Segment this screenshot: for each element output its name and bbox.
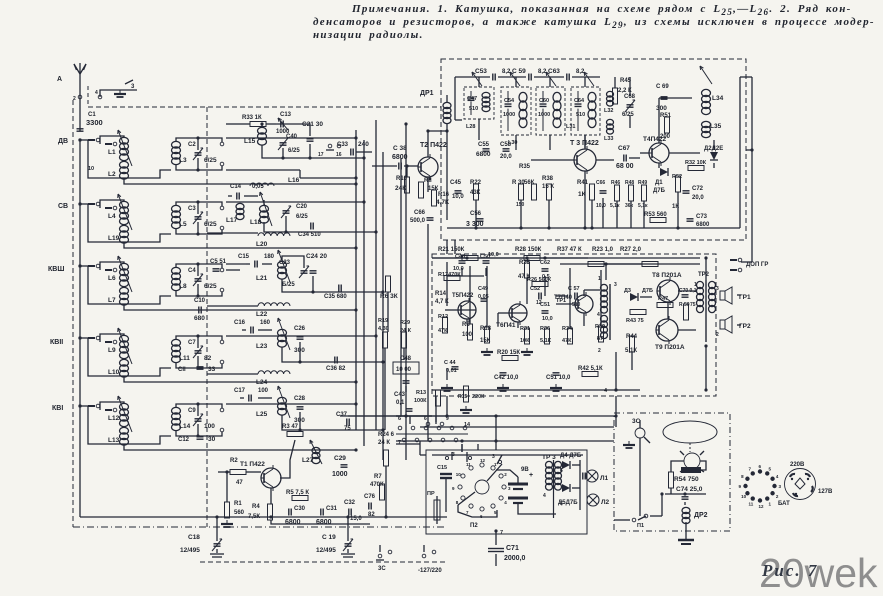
svg-text:С33: С33 xyxy=(337,142,349,148)
wire: AF bias rail xyxy=(432,256,708,280)
inductor L3 xyxy=(172,141,181,164)
wire: sec bot xyxy=(176,158,200,172)
resistor R37 label xyxy=(557,247,582,253)
svg-text:36к: 36к xyxy=(625,203,634,209)
wire: out to bus xyxy=(198,264,222,268)
svg-text:R13: R13 xyxy=(416,390,426,396)
wire: row1 out xyxy=(356,151,372,153)
svg-text:С72: С72 xyxy=(692,186,704,192)
resistor R14 xyxy=(435,291,449,305)
inductor L10 xyxy=(120,359,129,377)
wire: gang bus 1 xyxy=(355,130,357,430)
svg-text:СВ: СВ xyxy=(58,203,68,210)
svg-text:С12: С12 xyxy=(178,437,190,443)
resistor R6 xyxy=(380,276,398,300)
svg-text:47: 47 xyxy=(236,480,243,486)
svg-text:L7: L7 xyxy=(108,297,116,304)
svg-text:R28 150К: R28 150К xyxy=(515,247,542,253)
connector pair КВI xyxy=(88,404,117,412)
wire: coil bottom L13 xyxy=(124,445,358,452)
capacitor C53 xyxy=(475,68,511,81)
wire: to П1 xyxy=(614,494,662,520)
wire: top dashed line antenna to IF block xyxy=(88,106,441,108)
svg-text:С40: С40 xyxy=(286,134,298,140)
resistor R27 label xyxy=(620,247,642,253)
inductor L12 xyxy=(118,396,132,432)
svg-text:С24 20: С24 20 xyxy=(306,253,327,260)
svg-text:П2: П2 xyxy=(470,523,478,529)
svg-text:L34: L34 xyxy=(712,95,724,102)
wire: power section wires xyxy=(665,461,706,530)
wire: AF mid rail xyxy=(462,268,486,276)
svg-text:L1: L1 xyxy=(108,149,116,156)
connector -127/220 xyxy=(418,550,442,574)
resistor R53 xyxy=(644,212,667,223)
svg-text:56К: 56К xyxy=(524,180,535,186)
svg-text:R35: R35 xyxy=(519,164,531,170)
capacitor C17 xyxy=(234,388,269,402)
svg-text:L2: L2 xyxy=(108,171,116,178)
trimmer capacitor С9 xyxy=(193,414,203,426)
value 6/25 xyxy=(204,221,217,228)
svg-text:ДВ: ДВ xyxy=(58,138,68,145)
wire: right side drop xyxy=(741,150,752,262)
svg-text:R3 47: R3 47 xyxy=(282,424,299,430)
transistor T8 П201А xyxy=(652,272,682,305)
label L1 xyxy=(108,149,116,156)
wire: coil top L6 xyxy=(100,262,124,270)
svg-text:ДР1: ДР1 xyxy=(420,90,434,97)
svg-text:R17470К: R17470К xyxy=(438,272,461,278)
capacitor C15 xyxy=(238,254,275,268)
label С3 xyxy=(188,206,196,212)
resistor R23 label xyxy=(592,247,614,253)
svg-text:Д5Д7Б: Д5Д7Б xyxy=(558,500,578,506)
label coil L8 xyxy=(179,283,187,290)
note line 1 xyxy=(352,3,852,17)
wire: band feed СВ xyxy=(78,202,88,205)
svg-text:Д7Б: Д7Б xyxy=(653,188,666,194)
svg-text:L5: L5 xyxy=(179,221,187,228)
diode Д3 Д7Б xyxy=(624,288,653,301)
svg-text:L10: L10 xyxy=(108,369,120,376)
wire: coil top L12 xyxy=(100,402,124,410)
svg-text:С7: С7 xyxy=(188,340,196,346)
svg-text:R48: R48 xyxy=(625,180,634,186)
node ДВ label xyxy=(58,138,68,145)
svg-text:680: 680 xyxy=(194,315,205,322)
trimmer capacitor С3 xyxy=(193,212,203,224)
terminal КВIII a xyxy=(220,268,224,272)
connector pair КВIII xyxy=(88,264,117,272)
svg-text:R5 7,5 К: R5 7,5 К xyxy=(286,490,309,496)
svg-text:R21 150К: R21 150К xyxy=(438,247,465,253)
svg-text:С28: С28 xyxy=(294,396,306,402)
wire: sec bot xyxy=(176,222,200,236)
wire: link ДВ xyxy=(88,140,171,178)
label coil L11 xyxy=(179,355,190,362)
wire: T3 base feed xyxy=(531,159,574,161)
resistor R31 xyxy=(520,326,530,344)
svg-text:L9: L9 xyxy=(108,347,116,354)
svg-text:ТР2: ТР2 xyxy=(698,272,710,278)
svg-text:R33 1К: R33 1К xyxy=(242,115,262,121)
inductor L23 xyxy=(256,318,290,350)
label С9 xyxy=(188,408,196,414)
ground (T1 bottom) xyxy=(221,520,233,527)
inductor L16 xyxy=(250,177,300,186)
wire: out to bus xyxy=(198,336,222,340)
wire: row3 xyxy=(246,256,334,294)
svg-text:L19: L19 xyxy=(108,235,120,242)
wire: to T2 base xyxy=(372,165,418,167)
capacitor C5 xyxy=(210,259,227,271)
resistor R50 xyxy=(679,302,696,320)
svg-text:4: 4 xyxy=(543,493,546,499)
wire: sec bot xyxy=(176,356,200,370)
wire: power box frame xyxy=(426,450,587,534)
svg-text:5,1К: 5,1К xyxy=(625,348,637,354)
terminal pair row1 xyxy=(318,144,342,158)
svg-text:4: 4 xyxy=(95,90,98,96)
capacitor C14 xyxy=(230,184,264,200)
svg-text:П1: П1 xyxy=(637,523,644,529)
inductor L2 xyxy=(120,161,129,179)
svg-text:КВШ: КВШ xyxy=(48,266,64,273)
svg-text:20,0: 20,0 xyxy=(692,195,704,201)
svg-text:43К: 43К xyxy=(470,190,481,196)
svg-text:R54 750: R54 750 xyxy=(674,476,699,483)
svg-text:R19: R19 xyxy=(378,318,388,324)
wire: coil top L9 xyxy=(100,334,124,342)
wire: sec top xyxy=(176,200,200,214)
svg-text:С48: С48 xyxy=(400,356,412,362)
svg-text:L23: L23 xyxy=(256,343,268,350)
svg-text:8,2: 8,2 xyxy=(576,69,585,75)
wire: IF can feeds xyxy=(479,77,585,87)
svg-text:С66: С66 xyxy=(414,210,426,216)
svg-text:R 50: R 50 xyxy=(679,302,690,308)
trimmer capacitor С7 xyxy=(193,346,203,358)
svg-text:L14: L14 xyxy=(179,423,191,430)
svg-text:6/25: 6/25 xyxy=(622,112,634,118)
wire: bottom stubs xyxy=(380,545,424,552)
svg-text:R26 560К: R26 560К xyxy=(527,277,552,283)
wire: out bottom xyxy=(198,360,224,368)
resistor R10 xyxy=(395,176,410,193)
wire: left rail extension xyxy=(80,516,218,518)
terminal КВI a xyxy=(220,408,224,412)
resistor row 2 xyxy=(462,256,658,267)
svg-text:9: 9 xyxy=(739,484,742,489)
svg-text:С53: С53 xyxy=(475,68,487,75)
wire: AF bottom rail xyxy=(432,352,640,390)
wire: out to bus xyxy=(198,404,222,408)
svg-text:6/25: 6/25 xyxy=(204,157,217,164)
wire: AF T5 base xyxy=(445,309,458,311)
svg-text:R31: R31 xyxy=(520,326,530,332)
svg-text:С36 82: С36 82 xyxy=(326,366,346,372)
svg-text:3300: 3300 xyxy=(86,118,103,127)
svg-text:С48: С48 xyxy=(455,254,465,260)
svg-text:510: 510 xyxy=(572,302,581,308)
transistor T1 П422 xyxy=(240,461,281,491)
svg-text:ГР2: ГР2 xyxy=(739,323,751,330)
resistor R26 xyxy=(527,277,552,287)
figure caption Рис. 7 xyxy=(762,561,818,581)
wire: coil bottom L7 xyxy=(124,305,358,312)
svg-text:БАТ: БАТ xyxy=(778,501,790,507)
resistor R32 xyxy=(685,160,707,171)
wire: bottom rail xyxy=(218,516,447,518)
watermark 20wek xyxy=(759,550,878,596)
svg-text:С51 10,0: С51 10,0 xyxy=(546,375,571,381)
wire: AF block dashed frame xyxy=(432,254,716,396)
resistor R49 xyxy=(638,180,648,209)
wire: row crossings xyxy=(207,233,258,374)
inductor L19 xyxy=(120,225,129,243)
svg-text:С37: С37 xyxy=(336,412,348,418)
transformer can C47/L28 xyxy=(464,87,494,140)
svg-text:ДР2: ДР2 xyxy=(694,512,708,519)
wire: rail y427 xyxy=(420,426,614,428)
svg-text:L11: L11 xyxy=(179,355,190,362)
wire: IF bottom verticals xyxy=(476,77,740,228)
svg-text:Т4П422: Т4П422 xyxy=(643,136,666,143)
capacitor C31 xyxy=(316,506,338,526)
capacitor C21 xyxy=(302,121,323,141)
node КВII label xyxy=(50,339,63,346)
svg-text:150: 150 xyxy=(516,202,525,208)
inductor L7 xyxy=(120,287,129,305)
wire: T4 collector up xyxy=(659,98,692,143)
svg-text:С34 510: С34 510 xyxy=(298,232,321,238)
wire: osc row1 to bus xyxy=(330,157,364,159)
connector 3С jack xyxy=(632,418,650,443)
capacitor C55 xyxy=(476,142,491,158)
lamp Л1 xyxy=(586,470,609,482)
wire: bottom dash-dot chassis line xyxy=(73,526,447,528)
label 220В xyxy=(790,462,805,468)
wire: junction nodes 6 9 xyxy=(424,416,449,426)
svg-text:75: 75 xyxy=(344,426,351,432)
svg-text:6/25: 6/25 xyxy=(204,283,217,290)
resistor R22 xyxy=(470,180,482,200)
svg-text:100: 100 xyxy=(258,388,269,394)
svg-text:С64: С64 xyxy=(574,98,585,104)
svg-text:220В: 220В xyxy=(790,462,805,468)
capacitor C35 xyxy=(324,285,347,301)
svg-text:R12: R12 xyxy=(438,314,448,320)
svg-text:-127/220: -127/220 xyxy=(418,568,442,574)
resistor R47 xyxy=(657,296,673,308)
wire: lower dashed gang-link line xyxy=(200,561,447,563)
terminal СВ a xyxy=(220,206,224,210)
terminal КВII a xyxy=(220,340,224,344)
wire: IF block dashed frame xyxy=(441,59,746,240)
svg-text:Д3: Д3 xyxy=(624,288,631,294)
transistor T7 П40 xyxy=(554,292,593,316)
svg-text:R2: R2 xyxy=(230,458,238,464)
svg-text:С10: С10 xyxy=(194,298,206,304)
variable capacitor C18 xyxy=(180,534,222,554)
wire: T1 area xyxy=(218,440,370,524)
wire: rectifier wiring xyxy=(572,460,585,510)
svg-text:10: 10 xyxy=(741,494,747,499)
svg-text:24 К: 24 К xyxy=(400,328,412,334)
svg-text:10: 10 xyxy=(456,472,462,477)
inductor L22 xyxy=(256,303,290,318)
inductor L6 xyxy=(118,256,132,292)
capacitor C70 xyxy=(679,288,697,297)
svg-text:7: 7 xyxy=(749,467,752,472)
svg-text:2: 2 xyxy=(73,96,76,102)
inductor L1 xyxy=(118,130,132,166)
svg-text:47: 47 xyxy=(597,336,603,342)
wire: link СВ xyxy=(88,204,171,242)
svg-text:127В: 127В xyxy=(818,489,833,495)
svg-text:L16: L16 xyxy=(288,177,300,184)
label L13 xyxy=(108,437,120,444)
svg-text:6: 6 xyxy=(759,464,762,469)
svg-text:С74 25,0: С74 25,0 xyxy=(676,486,703,493)
svg-text:R8: R8 xyxy=(462,322,470,328)
diode Д1 Д7Б xyxy=(653,168,668,194)
wire: bus junction dots xyxy=(78,138,81,407)
svg-text:R23 1,0: R23 1,0 xyxy=(592,247,614,253)
svg-text:10: 10 xyxy=(88,166,94,172)
wire: band КВII to bus xyxy=(226,335,376,337)
wire: band КВIII to bus xyxy=(226,264,246,270)
inductor L27 xyxy=(302,440,322,464)
svg-text:510: 510 xyxy=(576,112,585,118)
inductor L8 xyxy=(172,267,181,290)
transistor T5 П422 xyxy=(452,293,476,322)
wire: C18 stem xyxy=(215,515,218,541)
wire: gang bus extra xyxy=(400,158,402,416)
resistor R11 xyxy=(419,178,439,198)
svg-text:Д4 Д7Б: Д4 Д7Б xyxy=(560,453,582,459)
wire: sec top xyxy=(176,334,200,348)
wire: box feeds xyxy=(420,441,426,455)
svg-text:С2: С2 xyxy=(188,142,196,148)
svg-text:100К: 100К xyxy=(414,398,427,404)
svg-text:10,0: 10,0 xyxy=(596,203,606,209)
terminal 3 xyxy=(125,80,135,90)
wire: band feed КВIII xyxy=(78,264,88,267)
connector Доп ГР xyxy=(730,258,768,272)
resistor R54 body xyxy=(669,472,674,488)
wire: coil bottom L19 xyxy=(124,243,358,250)
capacitor C29 xyxy=(332,455,348,478)
svg-text:2: 2 xyxy=(598,348,601,354)
svg-text:47К: 47К xyxy=(562,338,572,344)
svg-text:6/25: 6/25 xyxy=(204,221,217,228)
wire: link КВI xyxy=(88,406,171,444)
label 10 (L2 tap) xyxy=(88,166,94,172)
svg-text:L22: L22 xyxy=(256,311,268,318)
capacitor C49 xyxy=(478,286,489,301)
wire: band СВ to bus xyxy=(226,201,364,203)
wire: IF top rail xyxy=(455,76,600,78)
wire: osc out bus xyxy=(405,124,407,460)
capacitor C52a xyxy=(540,260,550,280)
resistor R1 xyxy=(225,501,245,518)
rotary switch П2 xyxy=(452,452,511,519)
svg-text:4: 4 xyxy=(776,474,779,479)
label 7 xyxy=(398,440,401,446)
capacitor C24 xyxy=(306,253,327,273)
resistor R21 row label xyxy=(438,247,465,253)
ground (C18) xyxy=(210,554,224,557)
resistor R51 xyxy=(660,113,672,140)
capacitor C52 xyxy=(530,286,542,306)
note line 3 xyxy=(313,29,424,41)
inductor L18 xyxy=(250,192,272,226)
wire: band feed КВII xyxy=(78,336,88,339)
wire: inter-block links xyxy=(447,240,708,392)
svg-text:15К: 15К xyxy=(480,338,491,344)
svg-text:С63: С63 xyxy=(548,68,560,75)
capacitor C16 xyxy=(234,320,271,334)
resistor R35 xyxy=(519,164,537,200)
svg-text:Т1 П422: Т1 П422 xyxy=(240,461,265,468)
wire: sec top xyxy=(176,262,200,276)
svg-text:R46: R46 xyxy=(611,180,620,186)
capacitor C42 xyxy=(494,373,519,381)
svg-text:С 19: С 19 xyxy=(322,534,336,541)
svg-text:R41: R41 xyxy=(577,180,589,186)
wire: out bottom xyxy=(198,226,224,234)
svg-text:1: 1 xyxy=(694,282,697,288)
resistor R43 xyxy=(626,310,646,325)
node СВ label xyxy=(58,203,68,210)
ground (3С) xyxy=(623,441,635,448)
svg-text:300: 300 xyxy=(656,105,667,112)
svg-text:R18: R18 xyxy=(480,326,492,332)
resistor R39 xyxy=(595,324,605,342)
capacitor C57 xyxy=(568,286,581,308)
inductor ДР2 xyxy=(682,507,708,523)
svg-text:6/25: 6/25 xyxy=(296,214,308,220)
svg-text:33: 33 xyxy=(208,366,216,373)
inductor L14 xyxy=(172,407,181,430)
svg-text:3: 3 xyxy=(131,84,135,90)
wire: band КВI to bus xyxy=(226,403,356,405)
tube socket (12-pin) xyxy=(739,464,782,509)
capacitor C69 xyxy=(656,84,669,112)
svg-text:L25: L25 xyxy=(256,411,268,418)
capacitor C33 xyxy=(337,141,369,156)
svg-text:С29: С29 xyxy=(334,455,346,462)
wire: out to bus xyxy=(198,202,222,206)
svg-text:С20: С20 xyxy=(296,204,308,210)
resistor R45 xyxy=(613,78,633,104)
transformer can C64 xyxy=(571,87,600,148)
svg-text:L27: L27 xyxy=(302,457,314,464)
capacitor C66 xyxy=(410,210,434,224)
wire: band ДВ bottom link xyxy=(226,170,300,178)
svg-text:С 59: С 59 xyxy=(512,68,526,75)
ground symbols AF bottom xyxy=(441,348,562,413)
svg-text:С18: С18 xyxy=(188,534,200,541)
svg-text:С73: С73 xyxy=(696,214,708,220)
wire: T2 down xyxy=(405,164,428,192)
capacitor C13 xyxy=(276,112,292,135)
svg-text:47К: 47К xyxy=(438,328,448,334)
svg-text:6800: 6800 xyxy=(316,519,332,526)
inductor ДР1 xyxy=(420,90,451,131)
